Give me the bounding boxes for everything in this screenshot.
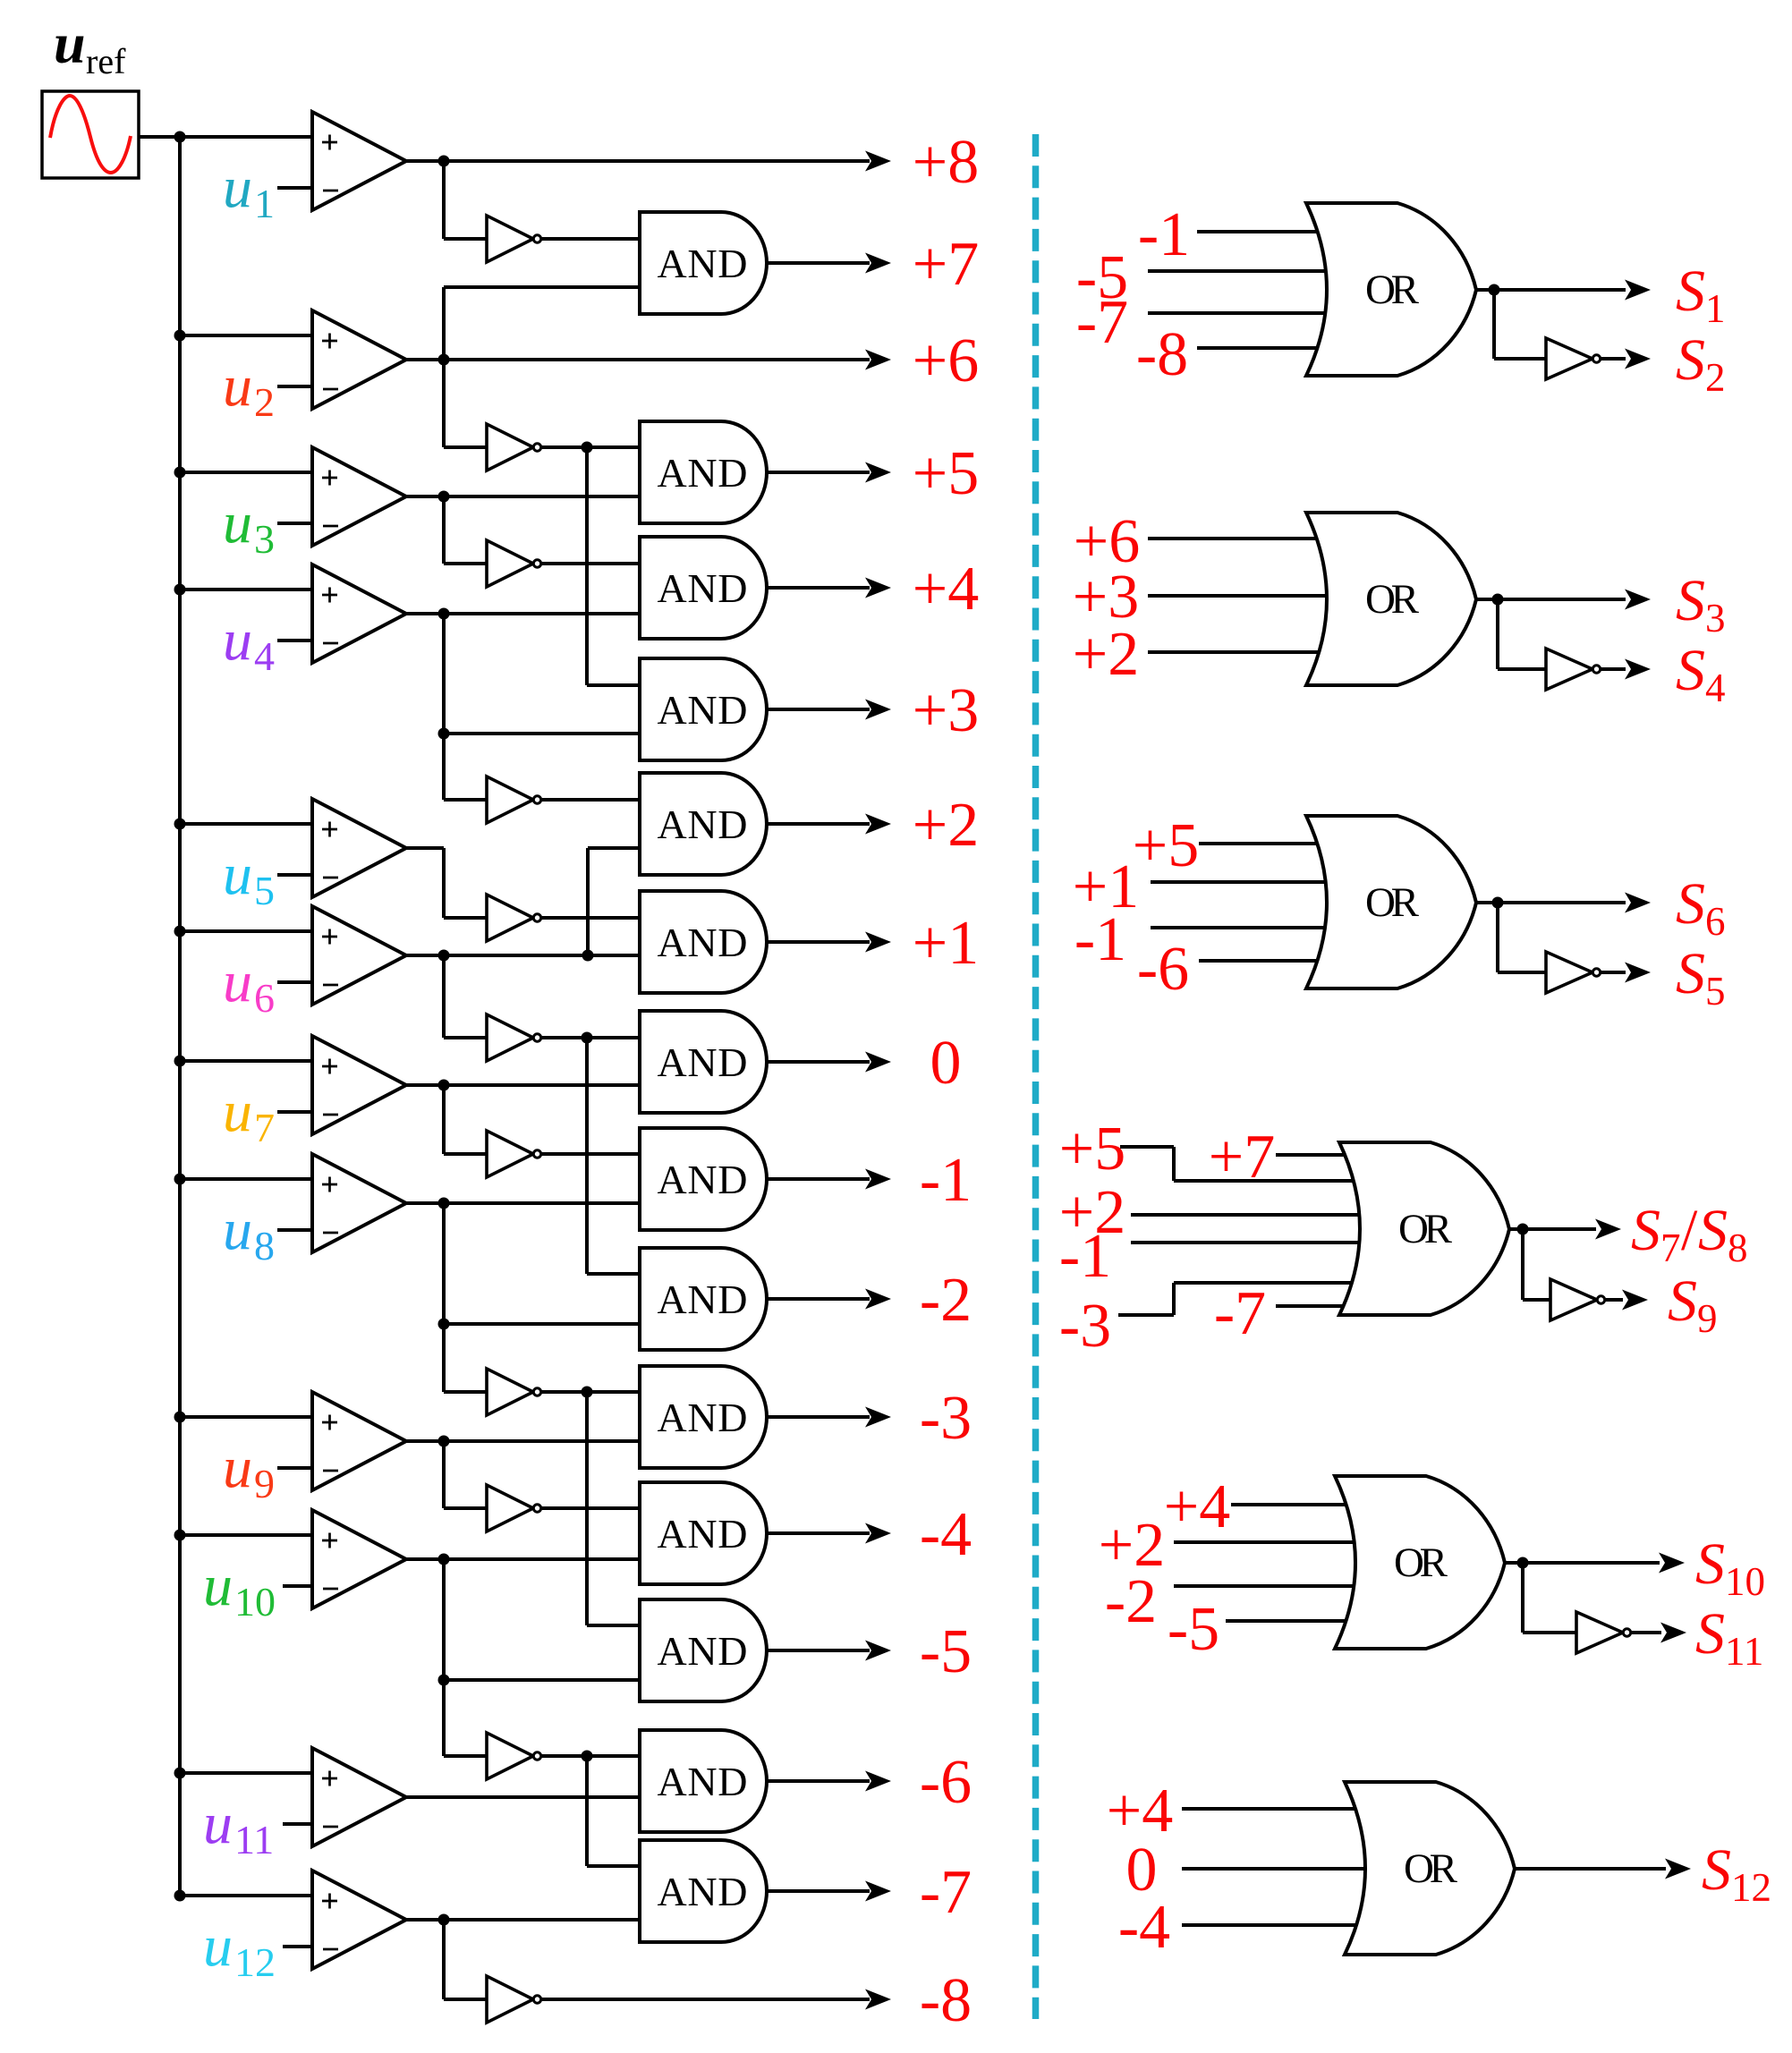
svg-text:12: 12 bbox=[1731, 1865, 1771, 1910]
wire inverter N1 output to AND +7 upper input bbox=[537, 237, 640, 241]
wire inverter to S5 arrow bbox=[1601, 971, 1626, 974]
node U8 output junction bbox=[438, 1198, 450, 1209]
svg-text:-1: -1 bbox=[1059, 1222, 1111, 1291]
wire U1 junction down to inverter N1 bbox=[444, 161, 488, 239]
AND gate for level -7 bbox=[640, 1840, 767, 1942]
node U12 output junction bbox=[438, 1914, 450, 1926]
wire bus to comparator U11 + input bbox=[180, 1771, 314, 1775]
svg-text:5: 5 bbox=[254, 868, 275, 913]
svg-text:-8: -8 bbox=[1136, 320, 1188, 389]
wire OR1 input -1 bbox=[1197, 230, 1321, 233]
wire bus to comparator U12 + input bbox=[180, 1894, 314, 1897]
node bus tap comp4 bbox=[174, 584, 186, 596]
wire OR4 input -1 bbox=[1131, 1241, 1362, 1244]
wire AND +1 output bbox=[767, 940, 870, 944]
wire OR5 input +4 bbox=[1231, 1503, 1349, 1506]
svg-text:+5: +5 bbox=[1133, 811, 1199, 880]
svg-text:/: / bbox=[1681, 1198, 1698, 1263]
node N8 output tap bbox=[582, 1387, 593, 1398]
svg-text:AND: AND bbox=[658, 1395, 748, 1440]
svg-text:1: 1 bbox=[1705, 286, 1726, 331]
svg-text:6: 6 bbox=[1705, 899, 1726, 944]
svg-text:-1: -1 bbox=[1074, 905, 1126, 974]
AND gate for level -2 bbox=[640, 1248, 767, 1350]
svg-text:OR: OR bbox=[1404, 1845, 1458, 1892]
inverter N7 bbox=[487, 1131, 541, 1177]
svg-text:S: S bbox=[1631, 1198, 1660, 1263]
wire u_ref output bbox=[139, 135, 180, 139]
label u12 bbox=[203, 1913, 276, 1985]
svg-text:S: S bbox=[1698, 1198, 1728, 1263]
wire u9 to comparator U9 - input bbox=[277, 1466, 314, 1470]
label u5 bbox=[223, 842, 275, 913]
wire inverter to S11 arrow bbox=[1631, 1631, 1661, 1634]
node bus tap comp9 bbox=[174, 1412, 186, 1423]
AND gate for level -1 bbox=[640, 1128, 767, 1230]
wire bus to comparator U8 + input bbox=[180, 1177, 314, 1181]
label level +2 bbox=[913, 791, 979, 860]
comparator U7 bbox=[312, 1036, 406, 1134]
wire inverter N12 output to -8 arrow bbox=[537, 1998, 870, 2001]
wire bus to comparator U5 + input bbox=[180, 822, 314, 826]
node N10 output tap bbox=[582, 1751, 593, 1762]
label OR4 input -7 bbox=[1214, 1279, 1266, 1348]
AND gate for level -5 bbox=[640, 1599, 767, 1701]
wire comparator U1 output to +8 arrow bbox=[406, 159, 870, 163]
wire comparator U10 output to AND -4 lower input bbox=[406, 1557, 640, 1561]
AND gate for level -6 bbox=[640, 1730, 767, 1832]
wire OR6 input +4 bbox=[1182, 1807, 1358, 1811]
wire N8 tap down to AND -5 upper input bbox=[587, 1392, 640, 1625]
node U3 output junction bbox=[438, 491, 450, 503]
label level -2 bbox=[920, 1266, 972, 1335]
arrow S7/S8 bbox=[1595, 1219, 1621, 1240]
node U1 output junction bbox=[438, 156, 450, 167]
wire OR5 input +2 bbox=[1174, 1540, 1357, 1544]
wire inverter N10 output to AND -6 upper input bbox=[537, 1754, 640, 1758]
arrow output -8 bbox=[865, 1989, 891, 2010]
svg-text:+5: +5 bbox=[1059, 1115, 1125, 1183]
svg-text:S: S bbox=[1676, 327, 1705, 393]
svg-text:11: 11 bbox=[1725, 1629, 1763, 1674]
node N6 output tap bbox=[582, 1032, 593, 1044]
label OR6 input 0 bbox=[1126, 1836, 1158, 1905]
wire AND -6 output bbox=[767, 1779, 870, 1783]
label S9 bbox=[1668, 1268, 1718, 1341]
label level +7 bbox=[913, 230, 979, 299]
label S1 bbox=[1676, 259, 1726, 331]
node bus tap comp10 bbox=[174, 1530, 186, 1541]
wire OR6 output to S12 arrow bbox=[1513, 1867, 1666, 1871]
arrow output -5 bbox=[865, 1641, 891, 1661]
wire U4 junction down to inverter N4 bbox=[444, 614, 488, 800]
wire AND -1 output bbox=[767, 1177, 870, 1181]
wire inverter N5 output to AND +1 upper input bbox=[537, 916, 640, 920]
wire comparator U5 output to corner bbox=[406, 846, 444, 850]
svg-text:3: 3 bbox=[254, 516, 275, 562]
node N2 output tap bbox=[582, 442, 593, 454]
wire comparator U2 output to +6 arrow bbox=[406, 358, 870, 361]
inverter N4 bbox=[487, 776, 541, 823]
wire AND +2 output bbox=[767, 822, 870, 826]
svg-text:AND: AND bbox=[658, 450, 748, 496]
svg-text:AND: AND bbox=[658, 1277, 748, 1322]
wire U3 junction down to inverter N3 bbox=[444, 496, 488, 564]
label S4 bbox=[1676, 638, 1726, 710]
wire inverter N6 output to AND 0 upper input bbox=[537, 1036, 640, 1039]
label level -3 bbox=[920, 1384, 972, 1453]
label OR1 input -7 bbox=[1076, 288, 1128, 357]
svg-text:0: 0 bbox=[930, 1029, 962, 1098]
wire inverter N3 output to AND +4 upper input bbox=[537, 562, 640, 565]
svg-text:u: u bbox=[223, 1435, 252, 1500]
wire u12 to comparator U12 - input bbox=[283, 1945, 314, 1948]
wire AND -3 output bbox=[767, 1415, 870, 1419]
label level -6 bbox=[920, 1748, 972, 1817]
label S2 bbox=[1676, 327, 1726, 400]
arrow S4 bbox=[1625, 659, 1651, 680]
svg-text:AND: AND bbox=[658, 565, 748, 611]
svg-text:OR: OR bbox=[1398, 1206, 1453, 1252]
arrow output +1 bbox=[865, 932, 891, 953]
svg-text:u: u bbox=[223, 949, 252, 1014]
wire OR1 input -5 bbox=[1148, 269, 1329, 273]
label OR1 input -5 bbox=[1076, 243, 1128, 312]
node OR5 output junction bbox=[1517, 1557, 1529, 1569]
inverter for S4 bbox=[1546, 649, 1601, 690]
wire OR1 output to S1 arrow bbox=[1474, 288, 1626, 292]
OR gate OR5 bbox=[1335, 1476, 1505, 1649]
arrow S6 bbox=[1625, 893, 1651, 913]
wire N2 tap down to AND +3 upper input bbox=[587, 447, 640, 685]
inverter N3 bbox=[487, 540, 541, 587]
svg-text:7: 7 bbox=[254, 1105, 275, 1150]
inverter for S2 bbox=[1546, 338, 1601, 379]
arrow output -6 bbox=[865, 1771, 891, 1792]
svg-text:4: 4 bbox=[1705, 666, 1726, 710]
label OR4 input +2 bbox=[1059, 1178, 1125, 1247]
arrow S9 bbox=[1622, 1290, 1648, 1311]
node bus tap comp12 bbox=[174, 1890, 186, 1902]
wire OR3 output to S6 arrow bbox=[1474, 901, 1626, 904]
label u9 bbox=[223, 1435, 275, 1506]
svg-text:12: 12 bbox=[234, 1939, 276, 1985]
svg-text:S: S bbox=[1676, 568, 1705, 633]
wire inverter N8 output to AND -3 upper input bbox=[537, 1390, 640, 1394]
arrow output -2 bbox=[865, 1289, 891, 1310]
AND gate for level +5 bbox=[640, 421, 767, 523]
inverter N8 bbox=[487, 1369, 541, 1415]
node U4 output junction bbox=[438, 608, 450, 620]
svg-text:S: S bbox=[1676, 941, 1705, 1006]
wire U5 corner down to inverter N5 bbox=[444, 848, 488, 918]
wire AND 0 output bbox=[767, 1060, 870, 1064]
wire OR2 input +6 bbox=[1148, 537, 1320, 540]
wire U4 branch to AND +3 lower input bbox=[444, 732, 640, 735]
wire u1 to comparator U1 - input bbox=[277, 186, 314, 190]
arrow output +6 bbox=[865, 350, 891, 370]
label u11 bbox=[203, 1791, 274, 1862]
dashed divider line bbox=[1032, 134, 1040, 2019]
label level +4 bbox=[913, 555, 979, 624]
svg-text:4: 4 bbox=[254, 633, 275, 679]
svg-text:+2: +2 bbox=[913, 791, 979, 860]
wire bus to comparator U1 + input bbox=[180, 135, 314, 139]
wire u_ref bus bbox=[178, 137, 182, 1896]
svg-text:9: 9 bbox=[254, 1461, 275, 1506]
wire comparator U9 output to AND -3 lower input bbox=[406, 1439, 640, 1443]
arrow S11 bbox=[1660, 1623, 1686, 1643]
label u6 bbox=[223, 949, 275, 1021]
wire inverter N9 output to AND -4 upper input bbox=[537, 1506, 640, 1510]
wire U7 junction down to inverter N7 bbox=[444, 1085, 488, 1154]
svg-text:AND: AND bbox=[658, 1039, 748, 1085]
wire comparator U6 output to AND +1 lower input bbox=[406, 954, 640, 957]
label OR1 input -1 bbox=[1138, 200, 1190, 269]
wire bus to comparator U6 + input bbox=[180, 929, 314, 933]
arrow S1 bbox=[1625, 280, 1651, 301]
wire u8 to comparator U8 - input bbox=[277, 1228, 314, 1232]
wire inverter to S4 arrow bbox=[1601, 667, 1626, 671]
wire OR5 output to S10 arrow bbox=[1503, 1561, 1660, 1565]
arrow output +2 bbox=[865, 814, 891, 835]
svg-text:AND: AND bbox=[658, 1759, 748, 1804]
wire bus to comparator U2 + input bbox=[180, 334, 314, 337]
svg-text:-7: -7 bbox=[920, 1858, 972, 1927]
svg-text:AND: AND bbox=[658, 687, 748, 733]
inverter N1 bbox=[487, 216, 541, 262]
label S12 bbox=[1702, 1837, 1771, 1910]
svg-text:+8: +8 bbox=[913, 128, 979, 197]
arrow output +3 bbox=[865, 700, 891, 720]
label OR3 input +1 bbox=[1073, 853, 1139, 921]
label level +8 bbox=[913, 128, 979, 197]
wire comparator U12 output to AND -7 lower input bbox=[406, 1918, 640, 1922]
wire comparator U3 output to AND +5 lower input bbox=[406, 495, 640, 498]
label level +5 bbox=[913, 439, 979, 508]
svg-text:-2: -2 bbox=[920, 1266, 972, 1335]
inverter N2 bbox=[487, 424, 541, 471]
wire OR1 input -7 bbox=[1148, 311, 1328, 315]
label OR4 input -3 bbox=[1059, 1292, 1111, 1361]
svg-text:OR: OR bbox=[1365, 576, 1420, 623]
wire U8 branch to AND -2 lower input bbox=[444, 1322, 640, 1326]
wire inverter to S2 arrow bbox=[1601, 357, 1626, 361]
svg-text:+7: +7 bbox=[913, 230, 979, 299]
label OR2 input +2 bbox=[1073, 620, 1139, 689]
comparator U4 bbox=[312, 564, 406, 663]
wire OR2 junction to inverter bbox=[1498, 599, 1546, 669]
svg-text:S: S bbox=[1676, 871, 1705, 937]
OR gate OR3 bbox=[1306, 816, 1476, 988]
label OR3 input +5 bbox=[1133, 811, 1199, 880]
wire OR3 junction to inverter bbox=[1498, 903, 1546, 972]
label S6 bbox=[1676, 871, 1726, 944]
svg-text:+3: +3 bbox=[913, 676, 979, 745]
svg-text:u: u bbox=[223, 842, 252, 907]
label S10 bbox=[1695, 1531, 1765, 1604]
svg-text:AND: AND bbox=[658, 241, 748, 286]
svg-text:S: S bbox=[1695, 1601, 1725, 1667]
svg-text:AND: AND bbox=[658, 1869, 748, 1914]
label S3 bbox=[1676, 568, 1726, 641]
label u8 bbox=[223, 1197, 275, 1268]
wire AND +3 output bbox=[767, 708, 870, 711]
wire inverter to S9 arrow bbox=[1605, 1298, 1623, 1302]
arrow output +8 bbox=[865, 151, 891, 172]
label u_ref bbox=[54, 12, 126, 81]
wire OR3 input -6 bbox=[1199, 959, 1321, 963]
OR gate OR2 bbox=[1306, 513, 1476, 685]
svg-text:9: 9 bbox=[1697, 1296, 1718, 1341]
svg-text:+4: +4 bbox=[1164, 1472, 1230, 1541]
wire bus to comparator U10 + input bbox=[180, 1533, 314, 1537]
node U7 output junction bbox=[438, 1080, 450, 1091]
arrow S10 bbox=[1659, 1553, 1685, 1574]
wire OR4 input -7 bbox=[1276, 1304, 1346, 1308]
arrow output -7 bbox=[865, 1881, 891, 1902]
svg-text:AND: AND bbox=[658, 1511, 748, 1557]
label level -8 bbox=[920, 1966, 972, 2035]
arrow output +5 bbox=[865, 462, 891, 483]
node OR1 output junction bbox=[1489, 284, 1500, 296]
wire u2 to comparator U2 - input bbox=[277, 385, 314, 388]
wire OR5 input -2 bbox=[1174, 1584, 1356, 1588]
label level -5 bbox=[920, 1617, 972, 1686]
wire inverter N4 output to AND +2 upper input bbox=[537, 798, 640, 802]
comparator U12 bbox=[312, 1871, 406, 1969]
wire u5 to comparator U5 - input bbox=[277, 873, 314, 877]
svg-text:u: u bbox=[223, 353, 252, 419]
svg-text:S: S bbox=[1676, 259, 1705, 324]
arrow S3 bbox=[1625, 590, 1651, 610]
wire U12 junction down to inverter N12 bbox=[444, 1920, 488, 1999]
wire N10 tap down to AND -7 upper input bbox=[587, 1756, 640, 1866]
node bus root bbox=[174, 131, 186, 143]
svg-text:OR: OR bbox=[1394, 1540, 1448, 1586]
svg-text:+6: +6 bbox=[913, 327, 979, 395]
comparator U8 bbox=[312, 1154, 406, 1252]
label level +1 bbox=[913, 909, 979, 978]
label level 0 bbox=[930, 1029, 962, 1098]
wire comparator U4 output to AND +4 lower input bbox=[406, 612, 640, 615]
node bus tap comp11 bbox=[174, 1768, 186, 1779]
svg-text:7: 7 bbox=[1660, 1226, 1681, 1270]
wire bus to comparator U7 + input bbox=[180, 1059, 314, 1063]
svg-text:-5: -5 bbox=[920, 1617, 972, 1686]
svg-text:10: 10 bbox=[1725, 1559, 1765, 1604]
wire OR6 input 0 bbox=[1182, 1867, 1368, 1871]
svg-text:8: 8 bbox=[1728, 1226, 1748, 1270]
comparator U3 bbox=[312, 447, 406, 546]
wire comparator U8 output to AND -1 lower input bbox=[406, 1201, 640, 1205]
wire bus to comparator U9 + input bbox=[180, 1415, 314, 1419]
svg-text:+4: +4 bbox=[913, 555, 979, 624]
wire AND -5 output bbox=[767, 1649, 870, 1652]
svg-text:+5: +5 bbox=[913, 439, 979, 508]
wire OR5 junction to inverter bbox=[1523, 1563, 1576, 1633]
node bus tap comp8 bbox=[174, 1174, 186, 1185]
wire AND +4 output bbox=[767, 586, 870, 590]
OR gate OR1 bbox=[1306, 203, 1476, 376]
svg-text:-1: -1 bbox=[1138, 200, 1190, 269]
wire OR4 input +7 bbox=[1276, 1153, 1347, 1157]
svg-text:+2: +2 bbox=[1073, 620, 1139, 689]
node U8 branch to AND -2 bbox=[438, 1319, 450, 1330]
arrow output 0 bbox=[865, 1052, 891, 1073]
svg-text:-5: -5 bbox=[1168, 1595, 1219, 1664]
wire AND -4 output bbox=[767, 1531, 870, 1535]
label OR3 input -6 bbox=[1137, 935, 1189, 1004]
wire AND +7 output bbox=[767, 261, 870, 265]
svg-text:11: 11 bbox=[234, 1817, 274, 1862]
svg-text:ref: ref bbox=[86, 41, 126, 81]
svg-text:-3: -3 bbox=[1059, 1292, 1111, 1361]
AND gate for level +7 bbox=[640, 212, 767, 314]
voltage source u_ref (sine box) bbox=[42, 91, 139, 178]
wire u6 to comparator U6 - input bbox=[277, 980, 314, 984]
wire inverter N2 output to AND +5 upper input bbox=[537, 445, 640, 449]
node bus tap comp2 bbox=[174, 330, 186, 342]
AND gate for level +3 bbox=[640, 658, 767, 760]
svg-text:AND: AND bbox=[658, 920, 748, 965]
label u3 bbox=[223, 490, 275, 562]
wire U2 junction up to AND +7 lower input bbox=[444, 287, 640, 360]
svg-text:+1: +1 bbox=[913, 909, 979, 978]
inverter for S5 bbox=[1546, 952, 1601, 993]
svg-text:6: 6 bbox=[254, 975, 275, 1021]
wire comparator U11 output to AND -6 lower input bbox=[406, 1795, 640, 1799]
wire OR3 input +5 bbox=[1199, 842, 1320, 845]
svg-text:u: u bbox=[223, 1197, 252, 1262]
inverter for S11 bbox=[1576, 1612, 1631, 1653]
label u1 bbox=[223, 155, 275, 226]
comparator U6 bbox=[312, 906, 406, 1005]
svg-text:u: u bbox=[223, 490, 252, 556]
label OR6 input -4 bbox=[1118, 1893, 1170, 1962]
comparator U5 bbox=[312, 799, 406, 897]
wire U8 junction down to inverter N8 bbox=[444, 1203, 488, 1392]
svg-text:u: u bbox=[54, 12, 86, 75]
node bus tap comp5 bbox=[174, 819, 186, 830]
inverter N10 bbox=[487, 1733, 541, 1779]
node U10 branch to AND -5 bbox=[438, 1675, 450, 1686]
svg-text:-2: -2 bbox=[1105, 1567, 1157, 1636]
comparator U10 bbox=[312, 1510, 406, 1608]
wire AND +5 output bbox=[767, 471, 870, 474]
arrow S12 bbox=[1665, 1859, 1691, 1879]
wire AND -7 output bbox=[767, 1889, 870, 1893]
label OR3 input -1 bbox=[1074, 905, 1126, 974]
svg-text:2: 2 bbox=[1705, 355, 1726, 400]
label OR2 input +6 bbox=[1074, 507, 1140, 576]
wire OR6 input -4 bbox=[1182, 1923, 1359, 1927]
node bus tap comp6 bbox=[174, 926, 186, 937]
svg-text:10: 10 bbox=[234, 1579, 276, 1625]
svg-text:-6: -6 bbox=[1137, 935, 1189, 1004]
label OR5 input -5 bbox=[1168, 1595, 1219, 1664]
svg-text:u: u bbox=[203, 1553, 233, 1618]
node U6 tap to AND +2 bbox=[582, 950, 594, 962]
wire u10 to comparator U10 - input bbox=[283, 1584, 314, 1588]
arrow S2 bbox=[1625, 349, 1651, 369]
arrow output +4 bbox=[865, 578, 891, 598]
label u10 bbox=[203, 1553, 276, 1625]
svg-text:AND: AND bbox=[658, 1157, 748, 1202]
inverter N6 bbox=[487, 1014, 541, 1061]
wire U2 junction down to inverter N2 bbox=[444, 360, 488, 447]
node OR4 output junction bbox=[1517, 1224, 1529, 1235]
